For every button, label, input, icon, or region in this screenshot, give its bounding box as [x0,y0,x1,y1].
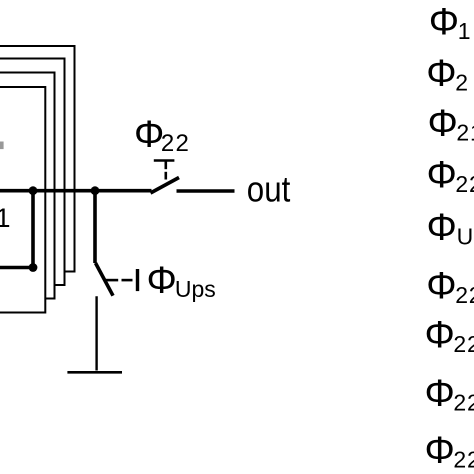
wire: cell C1 bottom-plate horizontal [0,266,33,270]
svg-text:1: 1 [0,203,11,233]
capacitor cell C3 [0,59,65,286]
label fragment inside cell C1 [0,142,4,150]
wire: output rail from cells to switch [0,189,152,193]
wire: switch S1 to out [177,189,235,193]
wire: cell C1 top-plate vertical [31,191,35,268]
wire: vertical branch to switch S2 [93,191,97,263]
capacitor cell C1 (front card) [0,87,45,313]
switch S2 arm (Ups precharge switch, open) [96,263,114,296]
node junction on rail at cell C1 [29,186,38,195]
switch S1 control dashed stem [165,162,168,170]
svg-text:out: out [247,168,290,209]
ground bar [67,371,122,374]
ground stem [95,296,97,370]
switch S1 arm (output switch, open) [151,178,180,194]
node junction cell C1 plate [29,263,38,272]
switch S2 control end bar [136,269,139,291]
switch S1 control T-bar [154,159,175,161]
capacitor cell C4 (back card of stacked unit-capacitor bank) [0,46,75,272]
capacitor cell C2 [0,73,55,299]
switch S2 control dashed line [106,279,119,282]
node junction rail to Ups branch [91,186,100,195]
